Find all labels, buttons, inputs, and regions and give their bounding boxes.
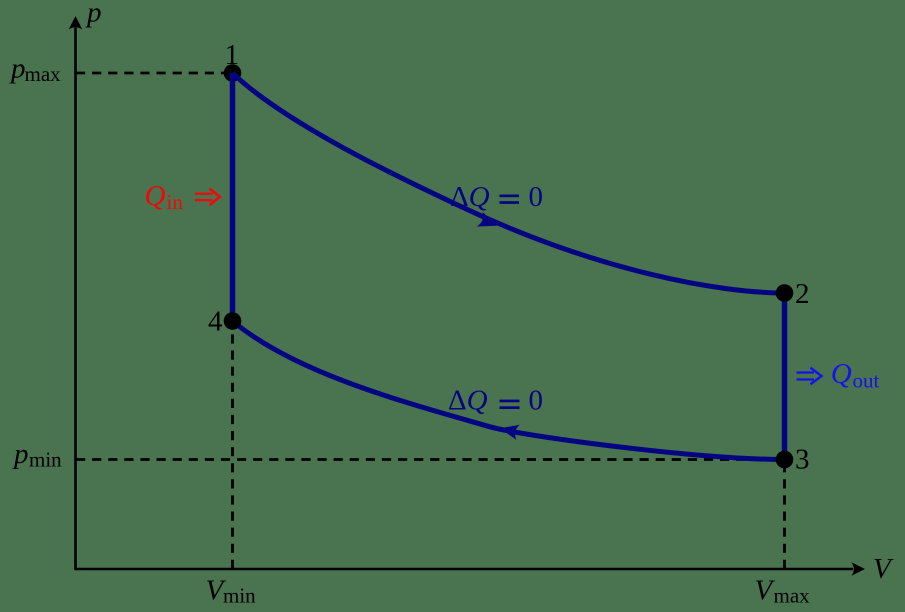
V axis (76, 568, 854, 571)
isochor 2-3 (V_max) (782, 293, 788, 460)
dashed V_min line (231, 321, 234, 569)
adiabat 1-2 (233, 73, 785, 293)
svg-text:Q: Q (145, 180, 166, 212)
adiabat 3-4 (233, 321, 785, 460)
svg-text:1: 1 (225, 39, 240, 71)
svg-text:3: 3 (795, 443, 810, 475)
isochor 4-1 (V_min) (230, 73, 236, 321)
svg-text:p: p (12, 438, 29, 470)
svg-text:ΔQ: ΔQ (450, 181, 490, 213)
svg-text:0: 0 (529, 385, 544, 417)
dashed V_max line (783, 460, 786, 570)
svg-text:4: 4 (208, 306, 223, 338)
svg-text:max: max (25, 62, 62, 86)
svg-text:ΔQ: ΔQ (448, 385, 488, 417)
svg-text:0: 0 (529, 181, 544, 213)
svg-text:p: p (9, 53, 26, 85)
svg-text:out: out (853, 369, 880, 393)
Delta Q = 0 label (top adiabat) (450, 181, 543, 213)
p axis (74, 28, 77, 571)
svg-text:2: 2 (795, 278, 810, 310)
point 1 (224, 64, 242, 82)
point 2 (776, 284, 794, 302)
dashed p_max line (76, 72, 227, 75)
Delta Q = 0 label (bottom adiabat) (448, 385, 543, 417)
arrowhead on adiabat 3-4 (500, 425, 520, 440)
p axis arrowhead (69, 16, 83, 30)
arrowhead on adiabat 1-2 (477, 212, 497, 227)
Q_in double arrow (red) (195, 189, 220, 206)
dashed p_min line (76, 458, 783, 461)
svg-text:in: in (167, 190, 184, 214)
svg-text:Q: Q (831, 358, 852, 390)
point 4 (224, 312, 242, 330)
point 3 (776, 451, 794, 469)
svg-text:min: min (29, 448, 62, 472)
svg-text:p: p (85, 0, 102, 29)
svg-text:max: max (774, 584, 811, 608)
V axis arrowhead (852, 562, 866, 576)
Q_out double arrow (blue) (796, 368, 821, 385)
svg-text:min: min (223, 584, 256, 608)
